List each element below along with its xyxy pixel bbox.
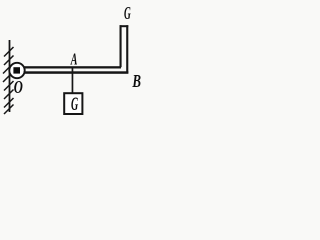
rod left edge <box>120 25 122 67</box>
rod top cap <box>120 25 129 27</box>
string at A <box>72 67 74 94</box>
svg-text:G: G <box>71 95 78 115</box>
weight box <box>64 93 82 114</box>
wall <box>9 40 11 112</box>
hinge O circle <box>9 63 24 78</box>
beam top edge <box>24 66 122 68</box>
hinge pin <box>13 67 20 73</box>
svg-text:A: A <box>70 50 77 68</box>
rod right edge <box>126 25 128 72</box>
wall hatching <box>3 47 14 114</box>
svg-text:B: B <box>132 72 141 92</box>
svg-text:O: O <box>14 78 23 98</box>
beam bottom edge <box>24 71 129 74</box>
svg-text:G: G <box>124 4 131 24</box>
